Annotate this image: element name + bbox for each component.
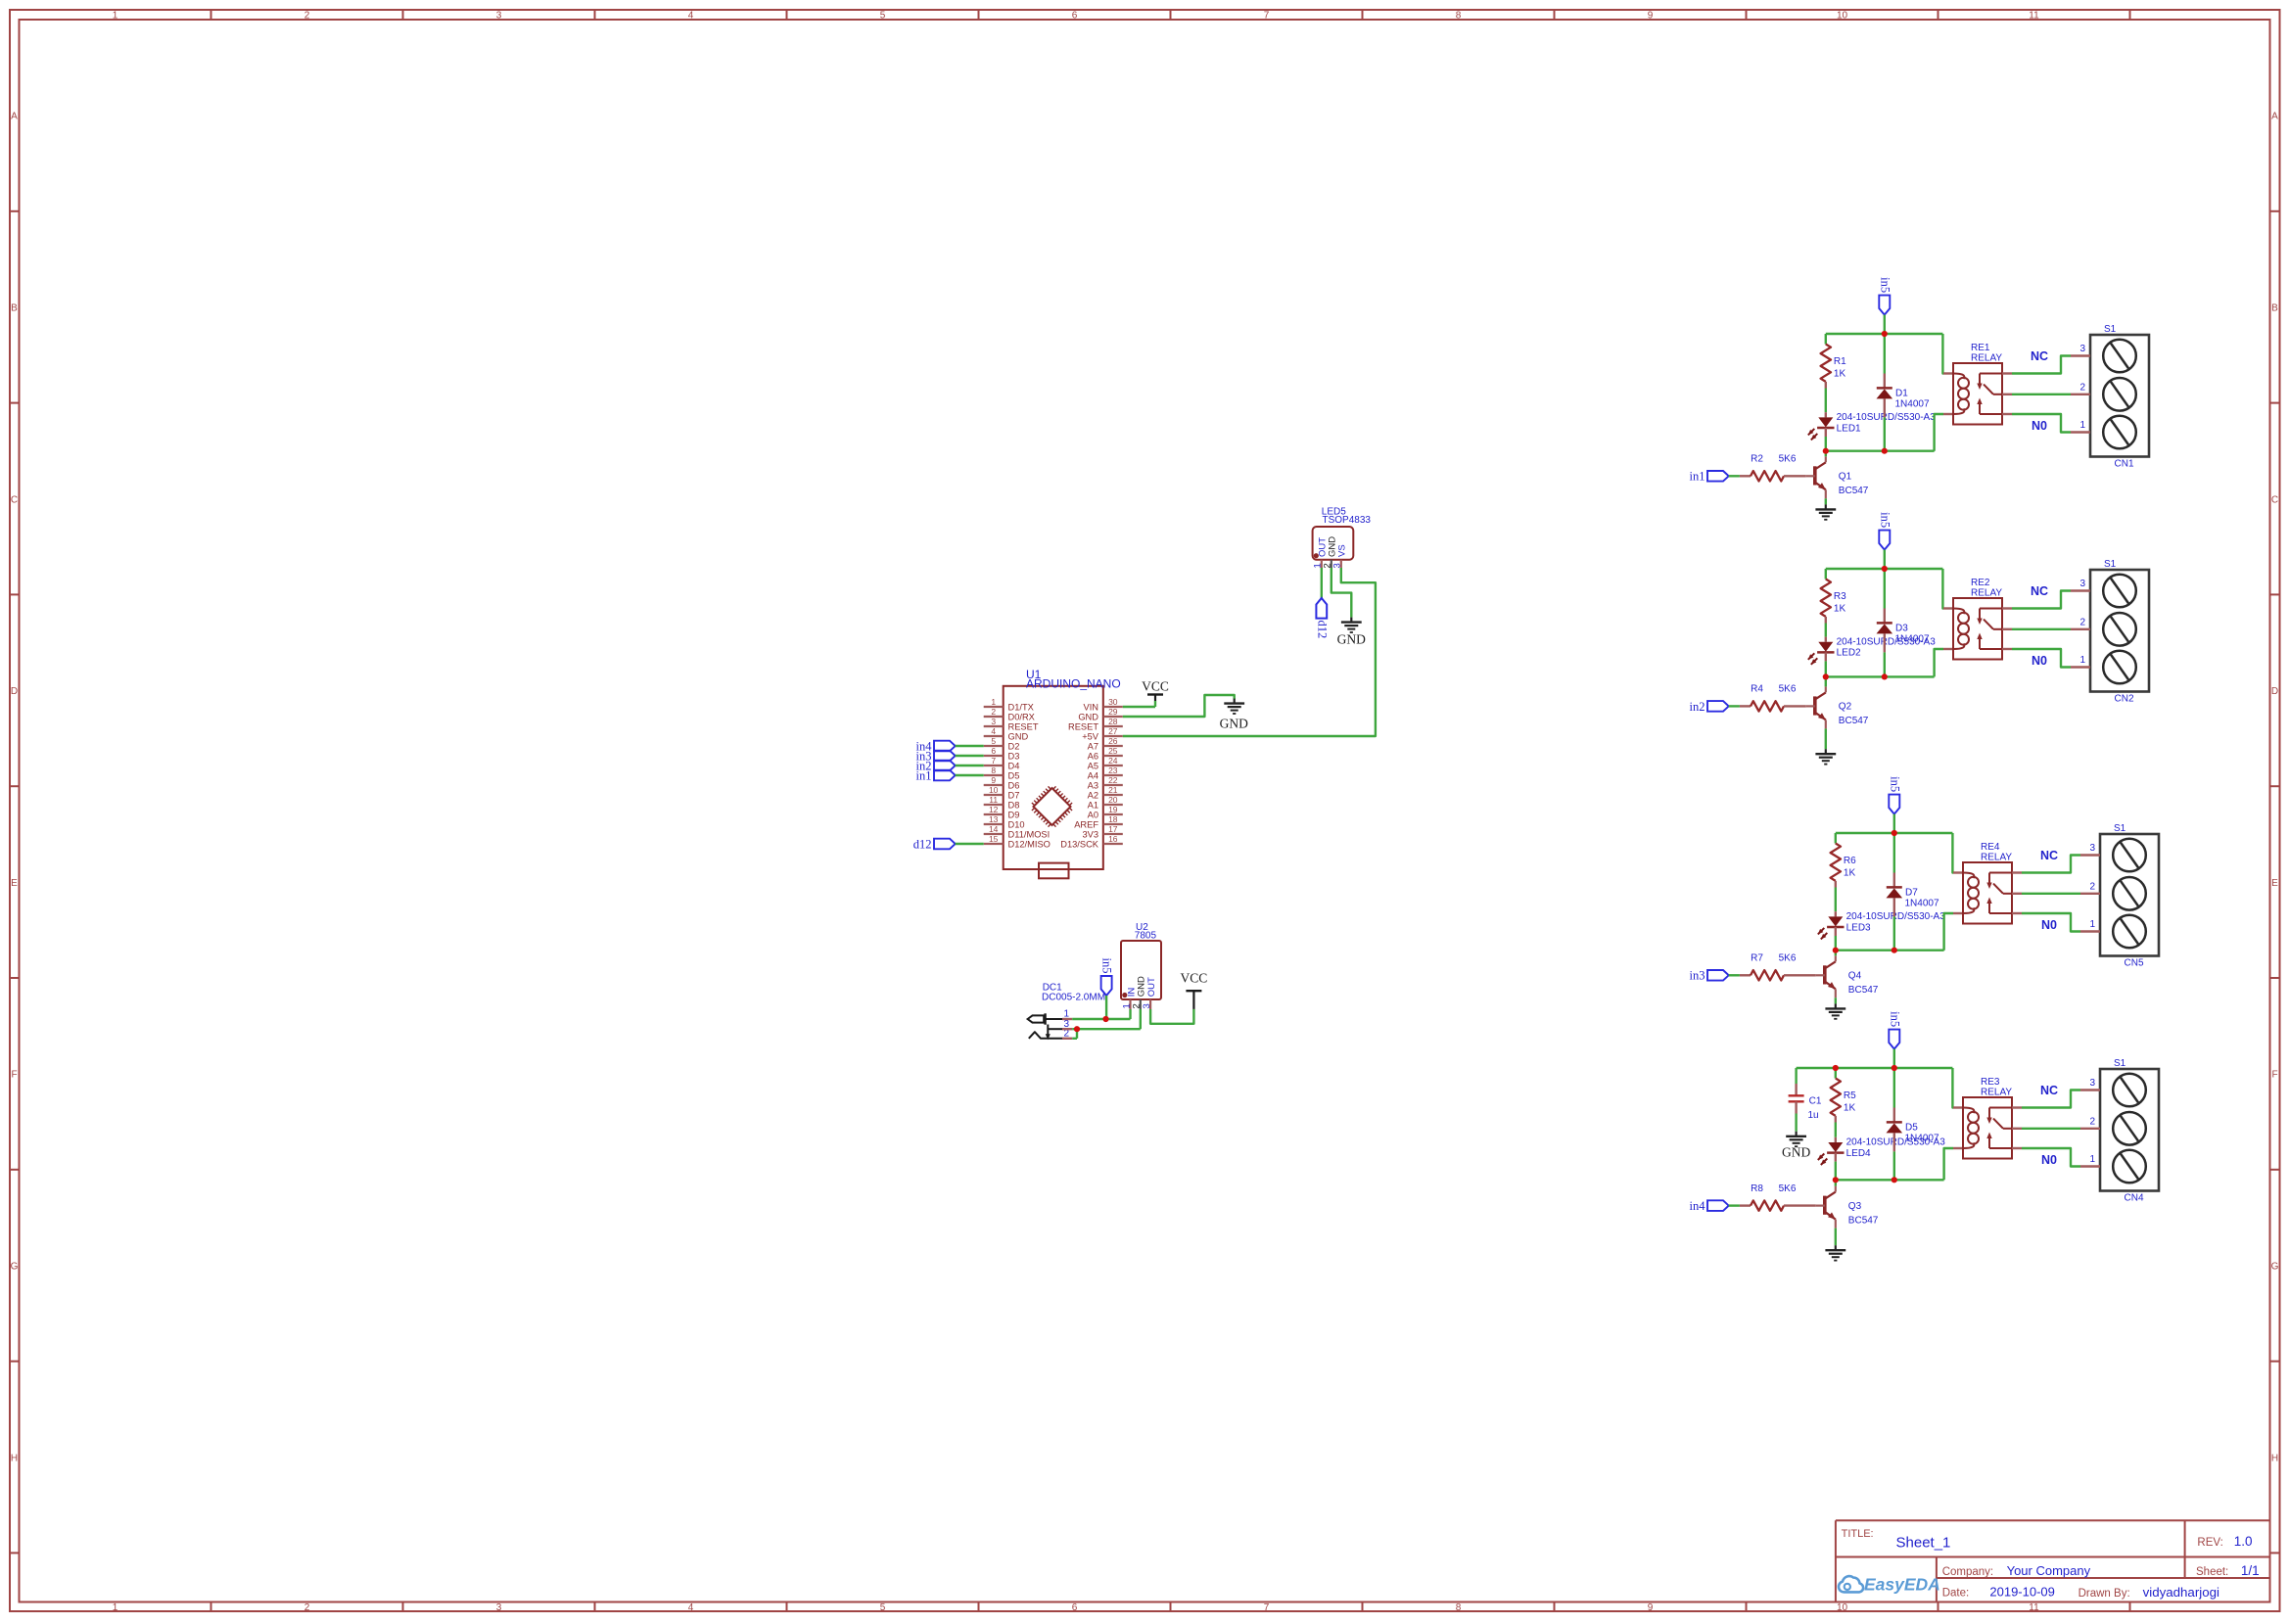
U1 pin 3 RESET xyxy=(984,717,1039,732)
connector S1 CN4 xyxy=(2100,1058,2159,1204)
CN1 pin 3 lead xyxy=(2071,354,2090,356)
svg-text:R5: R5 xyxy=(1844,1090,1856,1101)
svg-text:1.0: 1.0 xyxy=(2234,1534,2253,1549)
svg-text:7: 7 xyxy=(991,756,996,766)
U1 pin 24 A5 xyxy=(1088,756,1123,771)
relay RE4 RELAY xyxy=(1963,842,2012,924)
svg-text:12: 12 xyxy=(989,805,999,814)
relay coil bottom lead (RE1) xyxy=(1943,413,1953,415)
svg-text:C1: C1 xyxy=(1809,1095,1822,1106)
svg-text:2019-10-09: 2019-10-09 xyxy=(1989,1585,2054,1600)
svg-text:d12: d12 xyxy=(913,837,932,851)
svg-text:in3: in3 xyxy=(1690,969,1705,983)
svg-text:R2: R2 xyxy=(1751,454,1763,465)
junction bottom rail at LED2 xyxy=(1823,673,1829,679)
net flag in5 (RE4 circuit) xyxy=(1888,776,1901,813)
svg-text:LED3: LED3 xyxy=(1846,922,1871,933)
CN5 pin 2 lead xyxy=(2080,893,2100,895)
relay NO pin lead (RE1) xyxy=(2002,413,2012,415)
U1 pin 6 D3 xyxy=(984,746,1020,762)
relay NC pin lead (RE4) xyxy=(2012,871,2022,873)
U1 pin 18 AREF xyxy=(1074,814,1123,830)
svg-text:16: 16 xyxy=(1108,834,1118,844)
svg-text:RE2: RE2 xyxy=(1971,578,1990,588)
svg-text:D3: D3 xyxy=(1895,624,1908,634)
wire U1 GND pin29 to ground xyxy=(1123,695,1235,717)
wire Q3 emitter to ground xyxy=(1835,1229,1837,1246)
svg-text:25: 25 xyxy=(1108,746,1118,756)
svg-text:BC547: BC547 xyxy=(1839,716,1869,726)
U1 pin 11 D8 xyxy=(984,795,1020,811)
svg-text:C: C xyxy=(11,494,18,505)
wire N0 net (RE1) xyxy=(2012,414,2071,433)
svg-text:Sheet:: Sheet: xyxy=(2196,1566,2228,1578)
LED LED1 xyxy=(1808,412,1936,440)
svg-text:NC: NC xyxy=(2031,584,2048,598)
svg-text:CN2: CN2 xyxy=(2115,694,2134,705)
ground symbol GND (Q3) xyxy=(1825,1245,1845,1260)
junction top rail at diode column (RE2) xyxy=(1882,566,1888,572)
wire bottom rail to relay coil (RE4) xyxy=(1944,913,1953,951)
transistor Q3 BC547 xyxy=(1816,1186,1879,1229)
svg-text:B: B xyxy=(11,303,18,314)
svg-text:A4: A4 xyxy=(1088,770,1098,780)
wire top rail to relay coil (RE2) xyxy=(1941,569,1944,609)
junction top rail at resistor column (RE3) xyxy=(1833,1065,1839,1071)
svg-text:H: H xyxy=(11,1453,18,1463)
IR receiver LED5 TSOP4833 xyxy=(1313,506,1372,559)
svg-text:A6: A6 xyxy=(1088,751,1098,761)
svg-text:D8: D8 xyxy=(1008,800,1020,810)
svg-text:S1: S1 xyxy=(2104,559,2117,570)
relay RE1 RELAY xyxy=(1953,343,2002,425)
wire top rail (RE1) xyxy=(1826,333,1943,335)
svg-text:A2: A2 xyxy=(1088,790,1098,800)
U1 pin 2 D0/RX xyxy=(984,707,1035,722)
svg-text:RELAY: RELAY xyxy=(1981,1088,2012,1098)
svg-text:5K6: 5K6 xyxy=(1779,454,1797,465)
junction bottom rail at D1 xyxy=(1882,448,1888,454)
svg-text:1N4007: 1N4007 xyxy=(1905,1134,1939,1144)
wire R5 to LED4 xyxy=(1835,1123,1837,1137)
svg-text:3: 3 xyxy=(496,10,502,21)
U1 pin 17 3V3 xyxy=(1082,824,1122,840)
svg-text:6: 6 xyxy=(1072,1602,1078,1613)
svg-text:Q4: Q4 xyxy=(1848,971,1862,982)
svg-text:RELAY: RELAY xyxy=(1981,853,2012,863)
net flag in5 (RE2 circuit) xyxy=(1878,512,1892,549)
svg-text:D11/MOSI: D11/MOSI xyxy=(1008,829,1051,839)
wire LED1 to bottom rail xyxy=(1825,437,1827,451)
svg-text:in5: in5 xyxy=(1888,1011,1901,1027)
svg-text:204-10SURD/S530-A3: 204-10SURD/S530-A3 xyxy=(1846,911,1946,922)
svg-text:LED2: LED2 xyxy=(1837,648,1861,659)
CN4 pin 2 lead xyxy=(2080,1128,2100,1130)
junction bottom rail at LED3 xyxy=(1833,948,1839,953)
wire in5 to top rail (RE2) xyxy=(1884,550,1886,569)
CN1 pin 2 lead xyxy=(2071,394,2090,395)
wire COM net (RE3) xyxy=(2022,1128,2080,1130)
svg-text:RE1: RE1 xyxy=(1971,343,1990,353)
relay NO pin lead (RE3) xyxy=(2012,1147,2022,1149)
net flag in5 at U2 IN xyxy=(1100,958,1114,996)
svg-text:CN5: CN5 xyxy=(2125,958,2144,969)
svg-text:204-10SURD/S530-A3: 204-10SURD/S530-A3 xyxy=(1837,412,1937,423)
svg-text:1: 1 xyxy=(991,697,996,707)
U1 pin 13 D10 xyxy=(984,814,1025,830)
wire in2 to U1 xyxy=(956,765,984,766)
U1 USB tab xyxy=(1039,863,1069,879)
junction bottom rail at LED1 xyxy=(1823,448,1829,454)
relay coil top lead (RE1) xyxy=(1943,372,1953,374)
wire U1 VIN to VCC xyxy=(1123,701,1155,707)
ground symbol GND (C1) xyxy=(1782,1132,1810,1160)
svg-text:1: 1 xyxy=(2089,1154,2095,1165)
svg-text:2: 2 xyxy=(991,707,996,717)
junction at DC1 ground node xyxy=(1074,1026,1080,1032)
DC jack DC1 DC005-2.0MM xyxy=(1028,983,1105,1041)
relay COM pin lead (RE1) xyxy=(2002,394,2012,395)
svg-text:in1: in1 xyxy=(1690,470,1705,484)
wire in5 to top rail (RE3) xyxy=(1893,1049,1895,1068)
wire DC1 tip to U2 IN xyxy=(1072,1009,1130,1019)
U1 pin 22 A3 xyxy=(1088,775,1123,791)
resistor R7 5K6 xyxy=(1740,953,1816,981)
ground symbol GND (TSOP) xyxy=(1337,618,1366,647)
resistor R1 1K xyxy=(1821,334,1847,389)
U1 pin 1 D1/TX xyxy=(984,697,1034,713)
DC1 pin 1 lead xyxy=(1062,1018,1072,1020)
junction bottom rail at D3 xyxy=(1882,673,1888,679)
relay COM pin lead (RE4) xyxy=(2012,893,2022,895)
wire Q1 emitter to ground xyxy=(1825,498,1827,504)
wire in5 to top rail (RE1) xyxy=(1884,315,1886,334)
svg-text:R8: R8 xyxy=(1751,1183,1763,1194)
wire R6 to LED3 xyxy=(1835,888,1837,912)
net flag in5 (RE3 circuit) xyxy=(1888,1011,1901,1048)
svg-text:OUT: OUT xyxy=(1146,977,1157,997)
LED LED4 xyxy=(1818,1137,1945,1165)
U1 pin 25 A6 xyxy=(1088,746,1123,762)
wire top rail (RE3) xyxy=(1797,1067,1953,1069)
CN2 pin 2 lead xyxy=(2071,628,2090,630)
CN4 pin 1 lead xyxy=(2080,1165,2100,1167)
ground symbol GND (Q2) xyxy=(1815,749,1836,764)
svg-text:17: 17 xyxy=(1108,824,1118,834)
svg-text:in5: in5 xyxy=(1888,776,1901,792)
wire LED4 to bottom rail xyxy=(1835,1162,1837,1181)
svg-text:N0: N0 xyxy=(2041,918,2057,932)
wire Q3 collector to bottom rail xyxy=(1835,1180,1837,1185)
svg-text:7: 7 xyxy=(1264,10,1270,21)
U1 pin 8 D5 xyxy=(984,766,1020,781)
svg-text:H: H xyxy=(2271,1453,2278,1463)
relay coil bottom lead (RE3) xyxy=(1953,1147,1963,1149)
svg-text:AREF: AREF xyxy=(1074,819,1098,829)
svg-text:N0: N0 xyxy=(2032,654,2047,668)
svg-text:in2: in2 xyxy=(1690,700,1705,714)
svg-text:2: 2 xyxy=(2089,1116,2095,1127)
svg-text:RELAY: RELAY xyxy=(1971,588,2002,599)
svg-text:CN4: CN4 xyxy=(2125,1193,2144,1204)
wire N0 net (RE4) xyxy=(2022,913,2080,932)
wire LED3 to bottom rail xyxy=(1835,936,1837,951)
svg-text:Q2: Q2 xyxy=(1839,702,1852,713)
wire D7 to bottom rail xyxy=(1893,916,1895,950)
wire in4 to U1 xyxy=(956,745,984,747)
arduino nano U1 xyxy=(1004,668,1121,869)
wire bottom rail to relay coil (RE2) xyxy=(1935,649,1943,676)
relay RE3 RELAY xyxy=(1963,1077,2012,1159)
wire NC net (RE1) xyxy=(2012,356,2071,374)
wire D5 to bottom rail xyxy=(1893,1151,1895,1180)
svg-text:Q1: Q1 xyxy=(1839,472,1852,483)
svg-text:Drawn By:: Drawn By: xyxy=(2079,1588,2130,1600)
svg-text:NC: NC xyxy=(2040,849,2058,862)
diode D1 1N4007 xyxy=(1877,334,1930,417)
svg-text:11: 11 xyxy=(989,795,998,805)
net flag in3 at U1 pin D3 xyxy=(916,749,956,763)
svg-text:28: 28 xyxy=(1108,717,1118,726)
svg-text:4: 4 xyxy=(688,10,694,21)
svg-text:1: 1 xyxy=(2079,420,2085,431)
transistor Q1 BC547 xyxy=(1806,456,1869,498)
relay NO pin lead (RE2) xyxy=(2002,648,2012,650)
svg-text:30: 30 xyxy=(1108,697,1118,707)
wire in3 to U1 xyxy=(956,755,984,757)
svg-text:9: 9 xyxy=(1648,10,1654,21)
wire R1 to LED1 xyxy=(1825,389,1827,413)
wire NC net (RE4) xyxy=(2022,856,2080,873)
wire top rail to relay coil (RE3) xyxy=(1951,1068,1954,1108)
svg-text:5: 5 xyxy=(880,10,886,21)
U2 pin 1 IN xyxy=(1121,988,1137,1009)
svg-text:11: 11 xyxy=(2029,1602,2039,1613)
relay NO pin lead (RE4) xyxy=(2012,912,2022,914)
wire in1 to R2 xyxy=(1729,475,1740,477)
net flag in3 xyxy=(1690,969,1729,983)
LED5 pin 3 VS xyxy=(1332,544,1348,568)
svg-text:5: 5 xyxy=(880,1602,886,1613)
U1 pin 10 D7 xyxy=(984,785,1020,801)
svg-text:2: 2 xyxy=(304,1602,310,1613)
svg-text:5: 5 xyxy=(991,736,996,746)
junction top rail at diode column (RE4) xyxy=(1892,830,1897,836)
diode D5 1N4007 xyxy=(1887,1068,1939,1151)
svg-text:Q3: Q3 xyxy=(1848,1201,1862,1212)
svg-text:20: 20 xyxy=(1108,795,1118,805)
svg-text:3: 3 xyxy=(991,717,996,726)
CN4 pin 3 lead xyxy=(2080,1089,2100,1090)
svg-text:A: A xyxy=(11,112,18,122)
svg-text:NC: NC xyxy=(2031,349,2048,363)
svg-text:in4: in4 xyxy=(1690,1199,1706,1213)
wire bottom rail to relay coil (RE1) xyxy=(1935,414,1943,451)
svg-text:D10: D10 xyxy=(1008,819,1025,829)
relay coil bottom lead (RE2) xyxy=(1943,648,1953,650)
svg-text:in1: in1 xyxy=(916,768,932,782)
DC1 pin 3 lead xyxy=(1062,1028,1072,1030)
U1 IC diamond glyph xyxy=(1032,786,1072,826)
U1 pin 16 D13/SCK xyxy=(1060,834,1123,850)
U1 pin 19 A0 xyxy=(1088,805,1123,820)
resistor R4 5K6 xyxy=(1740,684,1806,712)
svg-text:9: 9 xyxy=(991,775,996,785)
power symbol VCC (U1 VIN) xyxy=(1142,679,1169,702)
svg-text:VCC: VCC xyxy=(1142,679,1169,694)
U1 pin 30 VIN xyxy=(1084,697,1123,713)
U1 pin 9 D6 xyxy=(984,775,1020,791)
capacitor C1 1u xyxy=(1789,1068,1822,1121)
svg-text:23: 23 xyxy=(1108,766,1118,775)
svg-text:BC547: BC547 xyxy=(1839,486,1869,496)
junction bottom rail at LED4 xyxy=(1833,1177,1839,1183)
U1 pin 7 D4 xyxy=(984,756,1020,771)
LED5 pin 2 GND xyxy=(1323,536,1338,569)
svg-text:1N4007: 1N4007 xyxy=(1895,399,1930,410)
svg-text:Sheet_1: Sheet_1 xyxy=(1896,1535,1951,1552)
svg-text:DC005-2.0MM: DC005-2.0MM xyxy=(1042,992,1105,1002)
U1 pin 29 GND xyxy=(1078,707,1122,722)
svg-text:VS: VS xyxy=(1337,544,1348,557)
net flag d12 at LED5 OUT xyxy=(1315,598,1329,638)
svg-text:8: 8 xyxy=(991,766,996,775)
net flag in2 at U1 pin D4 xyxy=(916,759,956,772)
U2 pin 3 OUT xyxy=(1142,977,1157,1009)
relay coil top lead (RE2) xyxy=(1943,607,1953,609)
svg-text:3: 3 xyxy=(2089,843,2095,854)
U1 pin 26 A7 xyxy=(1088,736,1123,752)
junction top rail at diode column (RE3) xyxy=(1892,1065,1897,1071)
svg-text:A5: A5 xyxy=(1088,761,1098,770)
connector S1 CN1 xyxy=(2090,324,2149,470)
wire bottom rail (RE2) xyxy=(1826,675,1935,677)
svg-text:D2: D2 xyxy=(1008,741,1020,751)
wire LED5 OUT to d12 flag xyxy=(1321,568,1323,598)
power symbol VCC (U2 OUT) xyxy=(1181,971,1208,1009)
wire Q1 collector to bottom rail xyxy=(1825,451,1827,457)
wire LED5 GND to ground xyxy=(1331,568,1352,618)
wire LED2 to bottom rail xyxy=(1825,661,1827,676)
svg-text:9: 9 xyxy=(1648,1602,1654,1613)
svg-text:2: 2 xyxy=(2079,382,2085,393)
svg-text:6: 6 xyxy=(991,746,996,756)
svg-text:3: 3 xyxy=(496,1602,502,1613)
svg-text:2: 2 xyxy=(304,10,310,21)
svg-text:D6: D6 xyxy=(1008,780,1020,790)
CN5 pin 1 lead xyxy=(2080,930,2100,932)
svg-text:26: 26 xyxy=(1108,736,1118,746)
svg-text:5K6: 5K6 xyxy=(1779,953,1797,964)
svg-text:F: F xyxy=(11,1070,17,1081)
svg-text:7: 7 xyxy=(1264,1602,1270,1613)
svg-text:D1: D1 xyxy=(1895,389,1908,399)
svg-text:D0/RX: D0/RX xyxy=(1008,712,1035,721)
svg-text:C: C xyxy=(2271,494,2278,505)
CN2 pin 1 lead xyxy=(2071,666,2090,668)
svg-text:8: 8 xyxy=(1456,10,1462,21)
svg-text:D7: D7 xyxy=(1008,790,1020,800)
svg-text:R6: R6 xyxy=(1844,856,1856,866)
relay RE2 RELAY xyxy=(1953,578,2002,660)
svg-text:D: D xyxy=(11,686,18,697)
svg-text:Your Company: Your Company xyxy=(2007,1563,2091,1578)
relay NC pin lead (RE1) xyxy=(2002,372,2012,374)
svg-text:Date:: Date: xyxy=(1942,1588,1970,1600)
relay NC pin lead (RE2) xyxy=(2002,607,2012,609)
svg-text:RESET: RESET xyxy=(1008,721,1039,731)
svg-text:d12: d12 xyxy=(1315,621,1329,639)
U1 pin 15 D12/MISO xyxy=(984,834,1051,850)
svg-text:5K6: 5K6 xyxy=(1779,1183,1797,1194)
svg-text:LED4: LED4 xyxy=(1846,1148,1871,1159)
svg-text:+5V: +5V xyxy=(1082,731,1099,741)
svg-text:R1: R1 xyxy=(1834,356,1846,367)
svg-text:GND: GND xyxy=(1078,712,1098,721)
svg-text:D5: D5 xyxy=(1008,770,1020,780)
junction bottom rail at D5 xyxy=(1892,1177,1897,1183)
svg-text:15: 15 xyxy=(989,834,999,844)
wire U2 OUT to VCC xyxy=(1150,1009,1193,1024)
svg-text:1: 1 xyxy=(2089,919,2095,930)
svg-text:1: 1 xyxy=(113,10,118,21)
svg-text:D12/MISO: D12/MISO xyxy=(1008,839,1051,849)
relay COM pin lead (RE3) xyxy=(2012,1128,2022,1130)
wire Q4 emitter to ground xyxy=(1835,998,1837,1003)
wire in1 to U1 xyxy=(956,774,984,776)
wire in2 to R4 xyxy=(1729,705,1740,707)
svg-text:1u: 1u xyxy=(1808,1110,1819,1121)
svg-text:in5: in5 xyxy=(1100,958,1114,974)
wire N0 net (RE2) xyxy=(2012,649,2071,668)
svg-text:4: 4 xyxy=(991,726,996,736)
svg-text:1: 1 xyxy=(2079,655,2085,666)
svg-text:S1: S1 xyxy=(2104,324,2117,335)
svg-text:22: 22 xyxy=(1108,775,1118,785)
svg-text:R7: R7 xyxy=(1751,953,1763,964)
CN1 pin 1 lead xyxy=(2071,431,2090,433)
svg-text:G: G xyxy=(2271,1262,2279,1273)
U1 pin 5 D2 xyxy=(984,736,1020,752)
wire N0 net (RE3) xyxy=(2022,1148,2080,1167)
wire top rail to relay coil (RE1) xyxy=(1941,334,1944,374)
svg-text:N0: N0 xyxy=(2032,419,2047,433)
title block xyxy=(1836,1520,2270,1601)
wire Q2 emitter to ground xyxy=(1825,728,1827,749)
LED LED2 xyxy=(1808,636,1936,664)
svg-text:TITLE:: TITLE: xyxy=(1842,1528,1874,1540)
svg-text:REV:: REV: xyxy=(2197,1537,2222,1549)
svg-text:E: E xyxy=(2271,878,2278,889)
wire U1 +5V to TSOP VS xyxy=(1123,568,1376,736)
svg-text:8: 8 xyxy=(1456,1602,1462,1613)
transistor Q4 BC547 xyxy=(1816,955,1879,998)
relay coil bottom lead (RE4) xyxy=(1953,912,1963,914)
svg-text:D4: D4 xyxy=(1008,761,1020,770)
svg-text:7805: 7805 xyxy=(1135,931,1157,942)
svg-text:A1: A1 xyxy=(1088,800,1098,810)
relay NC pin lead (RE3) xyxy=(2012,1106,2022,1108)
wire bottom rail (RE3) xyxy=(1836,1179,1944,1181)
net flag d12 at U1 pin D12/MISO xyxy=(913,837,956,851)
svg-text:27: 27 xyxy=(1108,726,1118,736)
wire d12 to U1 xyxy=(956,843,984,845)
connector S1 CN2 xyxy=(2090,559,2149,705)
svg-text:D7: D7 xyxy=(1905,888,1918,899)
wire in5 to top rail (RE4) xyxy=(1893,814,1895,833)
U1 pin 4 GND xyxy=(984,726,1029,742)
wire in3 to R7 xyxy=(1729,974,1740,976)
